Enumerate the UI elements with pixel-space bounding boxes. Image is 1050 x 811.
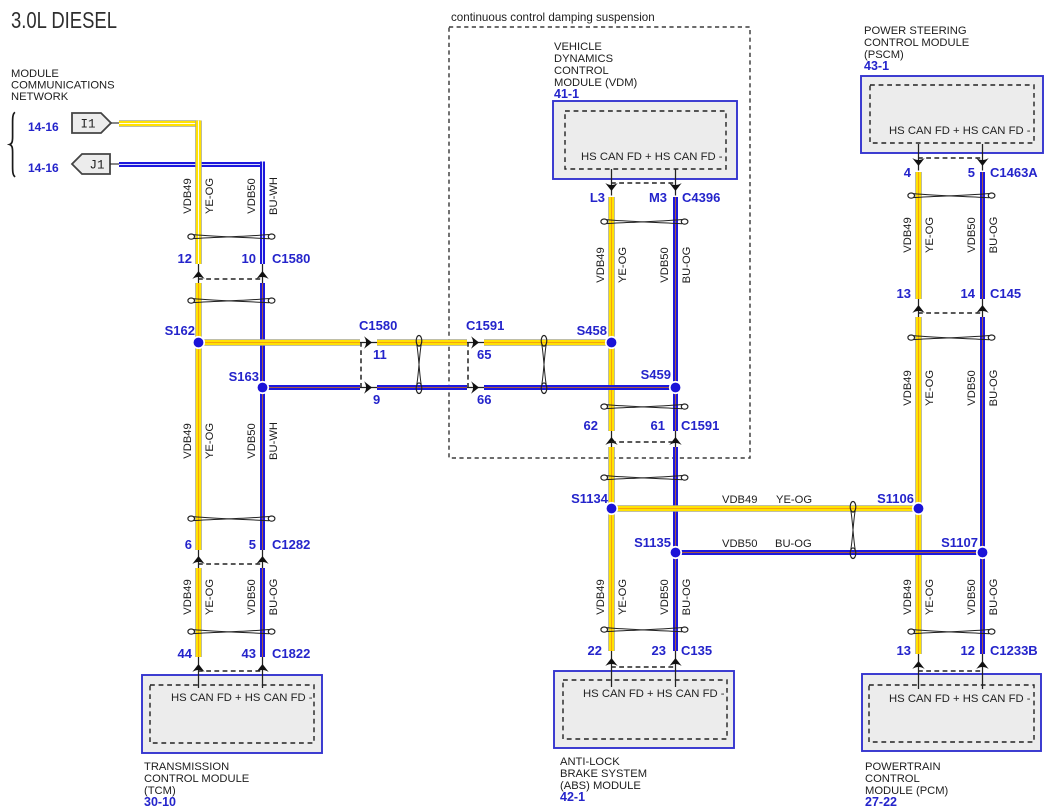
twisted pair below S458/S459 <box>601 404 688 409</box>
splice S1107 <box>976 546 989 559</box>
svg-text:62: 62 <box>584 418 598 433</box>
TCM module box <box>142 675 322 753</box>
wire VDB49 YE-OG S1134 to S1106 <box>611 505 918 512</box>
wire VDB49 YE-OG C1591 to S458 <box>484 339 611 346</box>
svg-text:VDB50: VDB50 <box>246 178 258 213</box>
twisted pair above C1233B <box>908 629 995 634</box>
svg-text:65: 65 <box>477 347 491 362</box>
svg-text:3.0L DIESEL: 3.0L DIESEL <box>11 7 117 33</box>
wire VDB50 BU-OG VDM to C1591 <box>673 197 678 431</box>
svg-text:J1: J1 <box>89 159 104 173</box>
twisted pair below C1580 <box>188 298 275 303</box>
svg-text:11: 11 <box>373 347 387 362</box>
svg-text:YE-OG: YE-OG <box>776 494 812 506</box>
splice S1134 <box>605 502 618 515</box>
svg-text:HS CAN FD + HS CAN FD -: HS CAN FD + HS CAN FD - <box>889 693 1031 705</box>
svg-text:S1135: S1135 <box>634 535 671 550</box>
svg-text:14: 14 <box>961 286 976 301</box>
twisted pair I1/J1 above C1580 <box>188 234 275 239</box>
svg-text:S1107: S1107 <box>941 535 978 550</box>
VDM pin M3 lead <box>669 169 681 196</box>
svg-text:C1822: C1822 <box>272 646 310 661</box>
svg-text:6: 6 <box>185 537 192 552</box>
svg-text:BU-WH: BU-WH <box>268 422 280 460</box>
C135 pin 23 lead <box>669 651 681 687</box>
svg-text:14-16: 14-16 <box>28 120 59 134</box>
VDM module box <box>553 101 737 179</box>
svg-text:BU-OG: BU-OG <box>988 217 1000 254</box>
svg-text:YE-OG: YE-OG <box>924 217 936 253</box>
wire VDB49 YE-OG PSCM to C145 <box>915 172 922 299</box>
C1580 pin 9 lead <box>360 381 377 393</box>
svg-text:22: 22 <box>588 643 602 658</box>
C1591 pin 65 lead <box>467 336 484 348</box>
wire VDB49 YE-OG S162 to C1580 <box>198 339 360 346</box>
wire VDB50 BU-OG C1580 to C1591 <box>377 385 467 390</box>
svg-text:VDB49: VDB49 <box>182 579 194 614</box>
svg-text:43-1: 43-1 <box>864 59 889 73</box>
PSCM pin 5 lead <box>976 144 988 171</box>
twisted pair between S1106 and S1107 <box>850 502 856 559</box>
svg-text:VDB49: VDB49 <box>722 494 757 506</box>
svg-text:YE-OG: YE-OG <box>924 370 936 406</box>
C135 dashed line <box>611 666 675 668</box>
wire VDB50 BU-WH C1580 to C1282 <box>260 283 265 550</box>
svg-text:BU-OG: BU-OG <box>775 538 812 550</box>
C135 pin 22 lead <box>605 651 617 687</box>
PCM module box <box>862 674 1041 751</box>
svg-text:YE-OG: YE-OG <box>204 423 216 459</box>
svg-text:9: 9 <box>373 392 380 407</box>
svg-text:VDB49: VDB49 <box>182 178 194 213</box>
splice S458 <box>605 336 618 349</box>
twisted pair between C1591 and S458 <box>541 336 547 394</box>
wire VDB50 BU-OG C1591 to ABS <box>673 447 678 651</box>
svg-text:12: 12 <box>961 643 975 658</box>
VDM module name <box>554 41 638 101</box>
C1591 pin 66 lead <box>467 381 484 393</box>
svg-text:YE-OG: YE-OG <box>924 579 936 615</box>
svg-text:ANTI-LOCK: ANTI-LOCK <box>560 756 620 768</box>
svg-text:M3: M3 <box>649 190 667 205</box>
splice S1106 <box>912 502 925 515</box>
svg-text:41-1: 41-1 <box>554 87 579 101</box>
svg-text:5: 5 <box>249 537 256 552</box>
ABS module name <box>560 756 647 804</box>
svg-text:I1: I1 <box>80 118 95 132</box>
twisted pair above C1282 <box>188 516 275 521</box>
svg-text:VDB50: VDB50 <box>246 423 258 458</box>
brace for network connectors <box>10 112 16 177</box>
TCM module name <box>144 761 249 809</box>
PSCM module name <box>864 25 969 73</box>
svg-text:YE-OG: YE-OG <box>204 178 216 214</box>
svg-text:43: 43 <box>242 646 256 661</box>
label MODULE COMMUNICATIONS NETWORK <box>11 68 115 103</box>
svg-text:23: 23 <box>652 643 666 658</box>
wire VDB50 BU-OG S163 to C1580 <box>262 385 360 390</box>
svg-text:HS CAN FD + HS CAN FD -: HS CAN FD + HS CAN FD - <box>889 125 1031 137</box>
C1233B pin 12 lead <box>976 654 988 689</box>
wire VDB49 YE-WH vertical to C1580 <box>195 121 202 265</box>
svg-text:13: 13 <box>897 286 911 301</box>
svg-text:CONTROL: CONTROL <box>865 773 920 785</box>
svg-text:NETWORK: NETWORK <box>11 91 69 103</box>
svg-text:VDB50: VDB50 <box>659 247 671 282</box>
wire VDB49 YE-OG C1282 to C1822 <box>195 568 202 657</box>
C1591 pin 61 lead <box>669 431 681 447</box>
svg-text:BU-OG: BU-OG <box>988 370 1000 407</box>
svg-text:YE-OG: YE-OG <box>204 579 216 615</box>
C1282 pin 6 lead <box>192 550 204 568</box>
C145 pin 13 lead <box>912 299 924 317</box>
svg-text:C1580: C1580 <box>359 318 397 333</box>
svg-text:VDB49: VDB49 <box>595 247 607 282</box>
C1822 pin 43 lead <box>256 657 268 688</box>
wire VDB49 YE-OG C1580 to C1591 <box>377 339 467 346</box>
C1591 pin 62 lead <box>605 431 617 447</box>
splice S1135 <box>669 546 682 559</box>
svg-text:YE-OG: YE-OG <box>617 579 629 615</box>
svg-text:44: 44 <box>178 646 193 661</box>
twisted pair above C1822 <box>188 629 275 634</box>
svg-text:S1134: S1134 <box>571 491 609 506</box>
wire VDB50 BU-OG C145 to PCM <box>980 317 985 654</box>
svg-text:VDB50: VDB50 <box>966 370 978 405</box>
wire VDB49 YE-OG C145 to PCM <box>915 317 922 654</box>
svg-text:CONTROL MODULE: CONTROL MODULE <box>144 773 249 785</box>
C1580 horizontal dashed line <box>360 342 362 387</box>
svg-text:4: 4 <box>904 165 912 180</box>
svg-text:VDB49: VDB49 <box>902 370 914 405</box>
svg-text:MODULE: MODULE <box>11 68 59 80</box>
C1282 dashed line <box>198 563 262 565</box>
svg-text:DYNAMICS: DYNAMICS <box>554 53 613 65</box>
C1233B pin 13 lead <box>912 654 924 689</box>
svg-text:BU-OG: BU-OG <box>268 579 280 616</box>
svg-text:12: 12 <box>178 251 192 266</box>
C145 pin 14 lead <box>976 299 988 317</box>
PCM module name <box>865 761 949 809</box>
svg-text:S1106: S1106 <box>877 491 914 506</box>
C1591 horizontal dashed line <box>467 342 469 387</box>
wire VDB50 BU-OG PSCM to C145 <box>980 172 985 299</box>
svg-text:C1580: C1580 <box>272 251 310 266</box>
svg-text:C1463A: C1463A <box>990 165 1038 180</box>
svg-text:C1591: C1591 <box>681 418 719 433</box>
VDM connector dashed line <box>611 182 675 184</box>
svg-text:S458: S458 <box>577 323 607 338</box>
svg-text:VDB50: VDB50 <box>246 579 258 614</box>
svg-text:YE-OG: YE-OG <box>617 247 629 283</box>
C1822 pin 44 lead <box>192 657 204 688</box>
svg-text:C1282: C1282 <box>272 537 310 552</box>
svg-text:S459: S459 <box>641 367 671 382</box>
svg-text:10: 10 <box>242 251 256 266</box>
svg-text:13: 13 <box>897 643 911 658</box>
lead from J1 <box>110 163 120 165</box>
svg-text:VDB49: VDB49 <box>902 579 914 614</box>
svg-text:HS CAN FD + HS CAN FD -: HS CAN FD + HS CAN FD - <box>171 692 313 704</box>
PSCM pin 4 lead <box>912 144 924 171</box>
C1233B dashed line <box>918 670 982 672</box>
svg-text:C1233B: C1233B <box>990 643 1038 658</box>
wire VDB50 BU-OG C1282 to C1822 <box>260 568 265 657</box>
svg-text:BU-OG: BU-OG <box>681 247 693 284</box>
svg-text:C1591: C1591 <box>466 318 504 333</box>
splice S163 <box>256 381 269 394</box>
svg-text:C145: C145 <box>990 286 1021 301</box>
svg-text:VDB50: VDB50 <box>966 217 978 252</box>
svg-text:HS CAN FD + HS CAN FD -: HS CAN FD + HS CAN FD - <box>583 688 725 700</box>
svg-text:HS CAN FD + HS CAN FD -: HS CAN FD + HS CAN FD - <box>581 151 723 163</box>
ABS module box <box>554 671 734 748</box>
svg-text:VDB49: VDB49 <box>595 579 607 614</box>
twisted pair between C1580 and C1591 <box>416 336 422 394</box>
wire VDB49 YE-WH from I1 horizontal <box>119 120 201 127</box>
connector I1 <box>72 113 111 133</box>
svg-text:BU-WH: BU-WH <box>268 177 280 215</box>
wire VDB49 YE-OG VDM to C1591 <box>608 197 615 431</box>
twisted pair above S1134 <box>601 475 688 480</box>
svg-text:S163: S163 <box>229 369 259 384</box>
svg-text:C135: C135 <box>681 643 712 658</box>
PSCM connector dashed line <box>918 157 982 159</box>
svg-text:CONTROL: CONTROL <box>554 65 609 77</box>
svg-text:C4396: C4396 <box>682 190 720 205</box>
svg-text:COMMUNICATIONS: COMMUNICATIONS <box>11 80 115 92</box>
svg-text:BU-OG: BU-OG <box>988 579 1000 616</box>
svg-text:POWER STEERING: POWER STEERING <box>864 25 967 37</box>
wire VDB50 BU-WH from J1 horizontal <box>119 162 265 167</box>
twisted pair below C1463A <box>908 193 995 198</box>
C1822 dashed line <box>198 670 262 672</box>
svg-text:BRAKE SYSTEM: BRAKE SYSTEM <box>560 768 647 780</box>
twisted pair below C4396 <box>601 219 688 224</box>
svg-text:27-22: 27-22 <box>865 795 897 809</box>
C1282 pin 5 lead <box>256 550 268 568</box>
dashed region: continuous control damping suspension <box>449 27 750 458</box>
svg-text:5: 5 <box>968 165 975 180</box>
C1580 pin 10 lead <box>256 264 268 283</box>
wire VDB49 YE-OG C1591 to ABS <box>608 447 615 651</box>
svg-text:VEHICLE: VEHICLE <box>554 41 602 53</box>
C1580 pin 11 lead <box>360 336 377 348</box>
svg-text:TRANSMISSION: TRANSMISSION <box>144 761 229 773</box>
svg-text:VDB49: VDB49 <box>902 217 914 252</box>
wire VDB49 YE-OG C1580 to C1282 <box>195 283 202 550</box>
connector J1 <box>72 154 110 174</box>
svg-text:BU-OG: BU-OG <box>681 579 693 616</box>
wire VDB50 BU-WH vertical to C1580 <box>260 162 265 265</box>
C1580 dashed line <box>198 278 262 280</box>
C1591 dashed line <box>611 441 675 443</box>
svg-text:61: 61 <box>651 418 665 433</box>
wire VDB50 BU-OG S1135 to S1107 <box>675 550 982 555</box>
twisted pair below C145 <box>908 335 995 340</box>
svg-text:CONTROL MODULE: CONTROL MODULE <box>864 37 969 49</box>
svg-text:14-16: 14-16 <box>28 161 59 175</box>
svg-text:VDB50: VDB50 <box>722 538 757 550</box>
lead from I1 <box>111 122 120 124</box>
C145 dashed line <box>918 312 982 314</box>
splice S459 <box>669 381 682 394</box>
splice S162 <box>192 336 205 349</box>
twisted pair above C135 <box>601 627 688 632</box>
svg-text:VDB49: VDB49 <box>182 423 194 458</box>
svg-text:POWERTRAIN: POWERTRAIN <box>865 761 941 773</box>
VDM pin L3 lead <box>605 169 617 196</box>
svg-text:30-10: 30-10 <box>144 795 176 809</box>
svg-text:S162: S162 <box>165 323 195 338</box>
svg-text:L3: L3 <box>590 190 605 205</box>
svg-text:VDB50: VDB50 <box>659 579 671 614</box>
svg-text:VDB50: VDB50 <box>966 579 978 614</box>
C1580 pin 12 lead <box>192 264 204 283</box>
PSCM module box <box>861 76 1043 153</box>
svg-text:66: 66 <box>477 392 491 407</box>
svg-text:continuous control damping sus: continuous control damping suspension <box>451 11 655 24</box>
wire VDB50 BU-OG C1591 to S459 <box>484 385 675 390</box>
svg-text:42-1: 42-1 <box>560 790 585 804</box>
